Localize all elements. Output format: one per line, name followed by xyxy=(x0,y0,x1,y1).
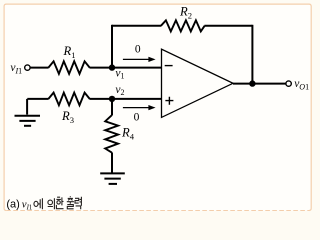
svg-text:0: 0 xyxy=(135,43,141,55)
력 xyxy=(75,197,81,210)
node: output junction xyxy=(249,80,255,86)
wire: vertical from node v1 up to feedback xyxy=(111,25,113,68)
op-amp U1 xyxy=(162,49,234,117)
wire: top feedback, right segment xyxy=(204,25,252,27)
wire: terminal vI1 to R1 xyxy=(30,67,48,69)
op-amp noninverting input marker (plus) xyxy=(165,97,173,105)
wire: top feedback, left segment xyxy=(112,25,161,27)
terminal vO1 xyxy=(286,81,291,86)
의 xyxy=(48,200,53,205)
caption: (a) vI1 xyxy=(6,199,32,212)
node v2 xyxy=(109,96,115,102)
ground (left, at R3 input) xyxy=(15,99,41,126)
op-amp inverting input marker (minus) xyxy=(165,65,173,67)
에 xyxy=(34,201,38,206)
svg-text:0: 0 xyxy=(134,112,140,124)
resistor R3 xyxy=(48,93,89,106)
caption: Korean text 에 의한 출력 (drawn glyphs) xyxy=(34,196,81,209)
current arrow (0) into noninverting input xyxy=(123,105,156,110)
wire: R4 to bottom ground xyxy=(111,152,113,172)
resistor R1 xyxy=(48,61,89,74)
current arrow (0) into inverting input xyxy=(123,57,156,62)
wire: vertical from feedback down to output node xyxy=(251,25,253,84)
wire: node v2 down to R4 xyxy=(111,99,113,116)
panel border frame (dashed bottom) xyxy=(6,210,309,212)
node v1 xyxy=(109,64,115,70)
ground (below R4) xyxy=(100,173,125,184)
wire: R3 to op-amp noninverting input xyxy=(90,98,162,100)
resistor R4 xyxy=(105,115,118,152)
wire: op-amp output to terminal vO1 xyxy=(233,83,286,85)
wire: R1 to op-amp inverting input xyxy=(90,67,162,69)
wire: ground to R3 xyxy=(27,98,48,100)
svg-text:(a): (a) xyxy=(6,199,19,211)
출 xyxy=(67,196,74,209)
terminal vI1 xyxy=(25,65,30,70)
resistor R2 xyxy=(161,20,205,31)
한 xyxy=(56,197,61,199)
